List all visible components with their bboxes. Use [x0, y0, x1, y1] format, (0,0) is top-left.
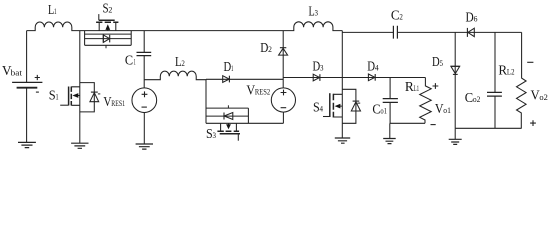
svg-text:1: 1 [54, 7, 57, 16]
svg-text:L2: L2 [507, 67, 515, 76]
svg-text:L1: L1 [414, 84, 420, 93]
svg-text:4: 4 [320, 104, 324, 113]
svg-text:o2: o2 [539, 93, 548, 102]
svg-text:3: 3 [315, 8, 319, 17]
svg-text:o2: o2 [473, 95, 481, 104]
svg-text:RES1: RES1 [111, 99, 125, 108]
svg-text:5: 5 [440, 59, 444, 68]
svg-text:o1: o1 [380, 106, 387, 115]
svg-text:2: 2 [108, 6, 112, 15]
svg-text:2: 2 [399, 12, 403, 21]
svg-text:3: 3 [320, 63, 324, 72]
svg-text:D: D [466, 9, 474, 24]
svg-text:C: C [125, 52, 133, 67]
svg-text:bat: bat [11, 68, 23, 77]
svg-text:1: 1 [231, 64, 233, 73]
svg-text:o1: o1 [443, 106, 451, 115]
svg-text:D: D [260, 40, 268, 55]
svg-text:4: 4 [375, 64, 379, 73]
svg-text:2: 2 [181, 59, 185, 68]
svg-text:1: 1 [56, 92, 59, 101]
svg-text:1: 1 [134, 57, 136, 66]
svg-text:3: 3 [213, 131, 217, 140]
svg-text:6: 6 [474, 14, 478, 23]
svg-text:RES2: RES2 [255, 87, 270, 96]
svg-text:2: 2 [268, 45, 272, 54]
